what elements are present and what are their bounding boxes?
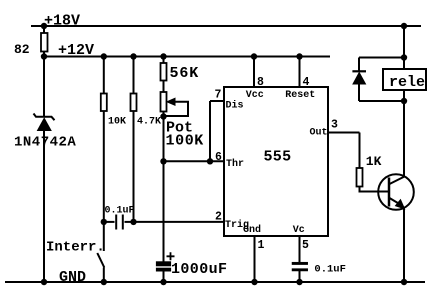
junction dot pin4 top [296, 53, 302, 59]
svg-text:Gnd: Gnd [243, 224, 261, 236]
wire emitter down to ground rail [403, 208, 405, 282]
svg-text:555: 555 [264, 149, 292, 166]
wire +12V rail [44, 56, 330, 58]
junction dot relay bottom [401, 98, 407, 104]
junction dot relay top [401, 54, 407, 60]
resistor R5 1K body [357, 168, 363, 187]
svg-text:100K: 100K [166, 133, 204, 150]
diode D2 cathode bar [352, 70, 366, 72]
wire pin 3 Out horizontal [328, 132, 360, 134]
wire pin 1 Gnd stub [254, 236, 256, 282]
junction dot +18V right [401, 23, 407, 29]
svg-text:Vc: Vc [293, 225, 305, 236]
wire switch to ground rail [103, 268, 105, 283]
junction dot gnd emitter [401, 279, 407, 285]
transistor Q1 base bar [388, 178, 391, 207]
wire Trig horizontal [134, 221, 224, 223]
wire Out down to 1K [359, 133, 361, 169]
wire node A to cap plate [104, 221, 115, 223]
svg-text:Out: Out [310, 127, 328, 138]
transistor Q1 circle [378, 174, 414, 210]
junction dot node A [101, 219, 107, 225]
zener D1 1N4742A triangle [38, 118, 52, 130]
svg-text:1: 1 [258, 239, 265, 252]
wire relay bottom [403, 90, 405, 101]
wire Thr horizontal [164, 160, 224, 162]
wire collector up to relay [403, 101, 405, 177]
junction dot gnd zener [41, 279, 47, 285]
svg-text:1K: 1K [366, 154, 382, 169]
wire 56K to pot [163, 81, 165, 93]
wire timing cap column [163, 161, 165, 262]
capacitor C3 0.1uF top plate [292, 262, 308, 264]
diode D2 vertical bottom [358, 84, 360, 101]
zener D1 1N4742A bar [34, 114, 55, 121]
resistor R1 82 body [41, 33, 48, 52]
resistor R3 4.7K body [131, 94, 137, 112]
wire 1K to base [360, 187, 390, 192]
wire 56K top stub [163, 57, 165, 64]
wire 4.7K top stub [133, 57, 135, 94]
svg-text:Interr.: Interr. [46, 239, 105, 255]
svg-text:0.1uF: 0.1uF [314, 264, 346, 276]
junction dot +18V left [41, 23, 47, 29]
wire 4.7K bottom to trig line [133, 111, 135, 222]
svg-text:4.7K: 4.7K [137, 116, 161, 127]
wire diode bottom stub [359, 100, 404, 102]
svg-text:10K: 10K [108, 116, 126, 127]
transistor Q1 collector diagonal [390, 177, 405, 185]
svg-text:1000uF: 1000uF [171, 261, 227, 278]
wire ground rail [5, 281, 425, 283]
capacitor C1 1000uF bottom plate [156, 268, 170, 271]
capacitor C3 0.1uF bottom plate [292, 269, 308, 271]
junction dot gnd switch [101, 279, 107, 285]
svg-text:Thr: Thr [226, 158, 244, 170]
junction dot gnd C3 [296, 279, 302, 285]
wire C3 to ground rail [299, 271, 301, 282]
resistor R2 10K body [101, 94, 107, 112]
pot wiper arrowhead [167, 98, 175, 105]
wire 1000uF to ground rail [163, 271, 165, 282]
capacitor C1 1000uF top plate [156, 262, 170, 266]
wire pin 5 Vc stub [299, 236, 301, 262]
junction dot Thr left [160, 158, 166, 164]
transistor Q1 emitter diagonal [390, 198, 403, 206]
svg-text:2: 2 [215, 211, 222, 224]
svg-text:+18V: +18V [44, 13, 80, 30]
svg-text:Vcc: Vcc [246, 90, 264, 101]
potentiometer P1 100K body [161, 92, 167, 112]
relay K1 box [383, 69, 426, 90]
switch S1 blade [97, 253, 104, 268]
svg-text:8: 8 [257, 76, 264, 89]
wire cap to trig node [125, 221, 134, 223]
wire Dis to Thr vertical [209, 101, 211, 161]
junction dot 4.7K top [130, 53, 136, 59]
wire 82-resistor top stub [43, 26, 45, 33]
capacitor C1 plus sign [167, 252, 175, 260]
wire pot bottom stub [163, 112, 165, 117]
svg-text:1N4742A: 1N4742A [14, 135, 76, 151]
junction dot pot bottom [160, 113, 166, 119]
svg-text:6: 6 [215, 151, 222, 164]
junction dot 56K top [160, 53, 166, 59]
svg-text:56K: 56K [170, 65, 200, 82]
pot wiper arrow line [165, 102, 188, 116]
wire +18V top rail [31, 25, 421, 27]
svg-text:4: 4 [303, 76, 310, 89]
junction dot 10K top [101, 53, 107, 59]
svg-text:5: 5 [302, 239, 309, 252]
svg-text:GND: GND [59, 269, 86, 286]
svg-text:0.1uF: 0.1uF [105, 206, 135, 217]
wire diode top stub [359, 57, 404, 59]
wire 10K top stub [103, 57, 105, 94]
wire pot node down to Thr junction [163, 117, 165, 162]
capacitor C2 0.1uF right plate [122, 215, 124, 230]
resistor R4 56K body [161, 63, 167, 81]
diode D2 triangle [353, 73, 366, 85]
wire Dis horizontal [210, 100, 224, 102]
capacitor C2 0.1uF left plate [115, 215, 117, 230]
svg-text:82: 82 [14, 42, 30, 57]
svg-text:Reset: Reset [285, 90, 315, 101]
junction dot Thr dis [207, 158, 213, 164]
wire pin 8 Vcc stub [253, 57, 255, 88]
wire top rail down to relay [403, 26, 405, 69]
svg-text:7: 7 [215, 89, 222, 102]
junction dot pin8 top [251, 53, 257, 59]
wire 82-resistor bottom stub [43, 52, 45, 57]
wire pin 4 Reset stub [299, 57, 301, 88]
junction dot +12V left [41, 53, 47, 59]
svg-text:+12V: +12V [58, 42, 94, 59]
svg-text:rele: rele [389, 74, 425, 91]
wire node A down to switch [103, 222, 105, 251]
wire zener column lower [43, 130, 45, 282]
junction dot gnd pin1 [251, 279, 257, 285]
svg-text:3: 3 [331, 119, 338, 132]
junction dot gnd 1000uF [160, 279, 166, 285]
transistor Q1 emitter arrowhead [396, 200, 405, 209]
wire 10K bottom to node A [103, 111, 105, 222]
junction dot trig cap [130, 219, 136, 225]
IC U1 555 box [224, 87, 328, 236]
diode D2 flyback vertical top [358, 58, 360, 71]
wire zener column upper [43, 57, 45, 117]
svg-text:Dis: Dis [226, 100, 244, 112]
